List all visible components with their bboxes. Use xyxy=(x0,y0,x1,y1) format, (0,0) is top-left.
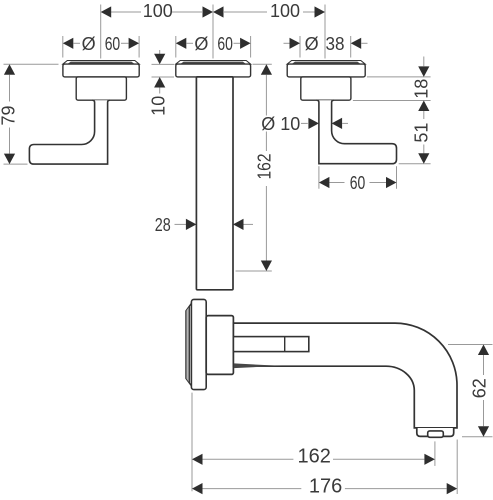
svg-text:176: 176 xyxy=(309,476,342,498)
svg-text:100: 100 xyxy=(143,1,173,21)
svg-text:Ø: Ø xyxy=(305,34,319,54)
svg-text:162: 162 xyxy=(254,154,274,180)
svg-text:18: 18 xyxy=(411,79,431,99)
svg-text:60: 60 xyxy=(217,34,233,54)
svg-text:60: 60 xyxy=(350,173,366,193)
svg-text:38: 38 xyxy=(326,34,345,54)
svg-text:Ø: Ø xyxy=(82,34,96,54)
svg-text:51: 51 xyxy=(411,123,431,143)
svg-text:79: 79 xyxy=(0,105,19,125)
svg-text:10: 10 xyxy=(148,96,168,116)
svg-text:100: 100 xyxy=(270,1,300,21)
svg-text:60: 60 xyxy=(105,34,121,54)
svg-text:Ø 10: Ø 10 xyxy=(261,114,300,134)
svg-text:28: 28 xyxy=(155,215,171,235)
svg-text:162: 162 xyxy=(298,445,331,467)
svg-text:62: 62 xyxy=(469,378,489,398)
svg-text:Ø: Ø xyxy=(194,34,208,54)
